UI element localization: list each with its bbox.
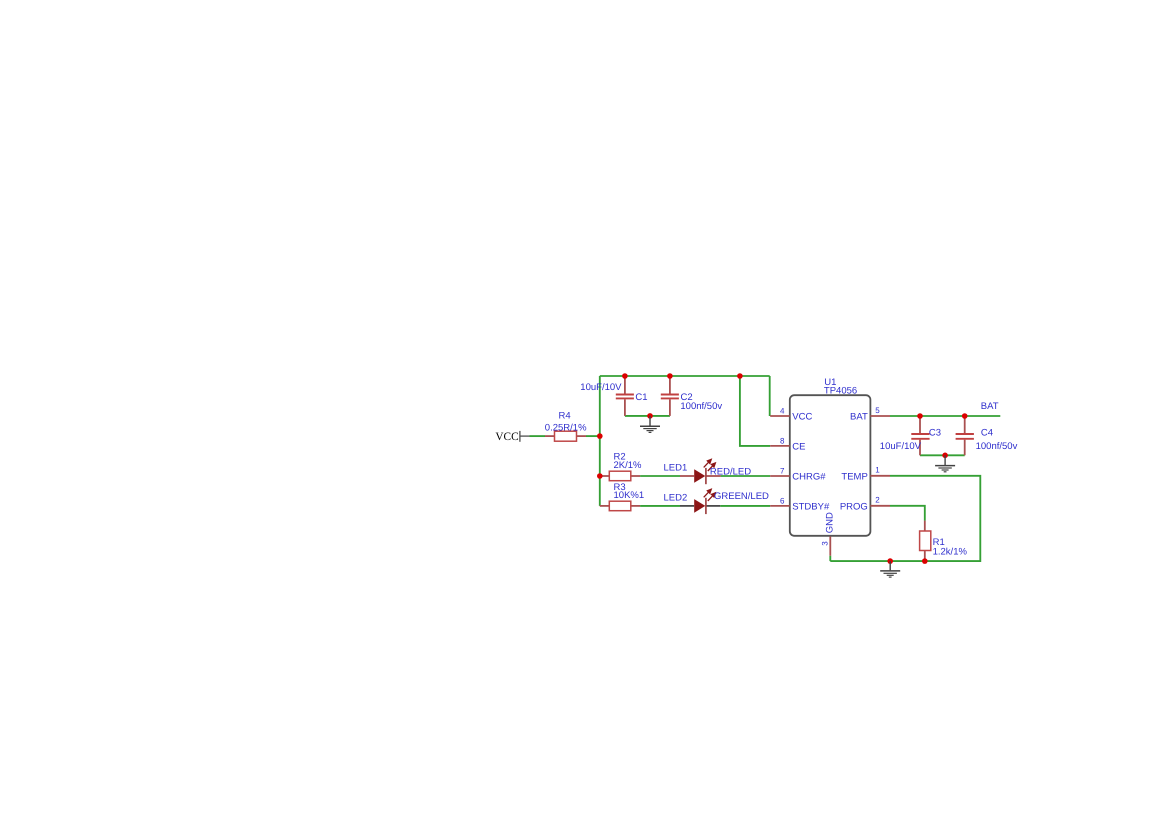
svg-text:LED1: LED1 (664, 463, 688, 474)
svg-text:6: 6 (780, 496, 785, 505)
svg-text:CHRG#: CHRG# (792, 471, 826, 482)
svg-text:BAT: BAT (850, 411, 868, 422)
svg-text:2: 2 (875, 496, 880, 505)
svg-text:1: 1 (875, 466, 880, 475)
svg-text:RED/LED: RED/LED (710, 467, 751, 478)
svg-text:C3: C3 (929, 427, 941, 438)
svg-text:BAT: BAT (981, 401, 999, 412)
svg-text:100nf/50v: 100nf/50v (976, 441, 1018, 452)
svg-text:4: 4 (780, 406, 785, 415)
svg-text:7: 7 (780, 466, 785, 475)
svg-text:LED2: LED2 (664, 492, 688, 503)
svg-text:VCC: VCC (495, 431, 518, 443)
svg-text:TP4056: TP4056 (824, 386, 857, 397)
svg-text:5: 5 (875, 406, 880, 415)
svg-text:TEMP: TEMP (841, 471, 867, 482)
svg-text:10uF/10V: 10uF/10V (580, 382, 622, 393)
svg-text:1.2k/1%: 1.2k/1% (933, 547, 968, 558)
svg-text:R4: R4 (559, 410, 571, 421)
svg-text:100nf/50v: 100nf/50v (680, 401, 722, 412)
svg-text:PROG: PROG (840, 501, 868, 512)
svg-text:8: 8 (780, 436, 785, 445)
svg-text:GND: GND (825, 512, 836, 533)
svg-text:10K%1: 10K%1 (614, 490, 645, 501)
svg-text:C4: C4 (981, 427, 993, 438)
svg-text:VCC: VCC (792, 411, 812, 422)
svg-text:C1: C1 (635, 392, 647, 403)
svg-text:2K/1%: 2K/1% (614, 460, 643, 471)
svg-text:0.25R/1%: 0.25R/1% (545, 422, 587, 433)
svg-text:3: 3 (821, 541, 830, 546)
svg-text:10uF/10V: 10uF/10V (880, 441, 922, 452)
svg-text:STDBY#: STDBY# (792, 501, 830, 512)
svg-text:CE: CE (792, 441, 805, 452)
svg-text:GREEN/LED: GREEN/LED (714, 491, 769, 502)
